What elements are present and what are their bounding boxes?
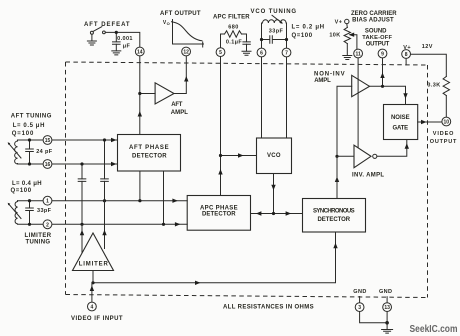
- wire: pin14 line down to AFT phase detector: [139, 56, 141, 135]
- pin 7: [282, 48, 291, 57]
- wire: AFT ampl output up to pin 12: [174, 56, 186, 94]
- pin 8: [402, 50, 411, 59]
- svg-text:11: 11: [355, 52, 361, 58]
- svg-text:AFT: AFT: [171, 102, 183, 108]
- wire: APC to VCO: [221, 155, 257, 157]
- svg-text:ZERO CARRIER: ZERO CARRIER: [351, 11, 397, 17]
- svg-text:3.3K: 3.3K: [427, 83, 440, 89]
- capacitor 0.1uF: [243, 42, 250, 44]
- svg-text:33pF: 33pF: [269, 29, 284, 35]
- svg-text:Q=100: Q=100: [11, 188, 32, 194]
- svg-text:16: 16: [45, 162, 51, 168]
- svg-text:13: 13: [384, 305, 390, 311]
- wire: inv input: [337, 155, 354, 157]
- pin 3: [355, 303, 364, 312]
- pin 5: [216, 48, 225, 57]
- svg-text:AMPL: AMPL: [171, 110, 189, 116]
- svg-text:OUTPUT: OUTPUT: [366, 42, 390, 48]
- wire: non-inv output node: [370, 86, 406, 104]
- wire: AFT det outputs down to buses: [139, 171, 141, 201]
- IC dashed boundary: [66, 62, 428, 298]
- junction: inv ampl input tap: [335, 155, 338, 158]
- capacitor 33pF (limiter tank): [26, 199, 34, 226]
- wire: tank top to pin 15: [18, 139, 44, 141]
- svg-text:7: 7: [285, 51, 288, 57]
- wire: pin 9 down to non-inv output node: [382, 58, 384, 87]
- svg-text:L= 0.5 μH: L= 0.5 μH: [13, 123, 45, 129]
- svg-text:9: 9: [381, 52, 384, 58]
- svg-text:TAKE-OFF: TAKE-OFF: [362, 35, 392, 41]
- svg-text:V+: V+: [335, 20, 343, 26]
- pin 13: [383, 303, 392, 312]
- svg-text:8: 8: [405, 52, 408, 58]
- svg-text:APC PHASE: APC PHASE: [200, 205, 238, 211]
- svg-text:AFT TUNING: AFT TUNING: [11, 113, 52, 119]
- AFT defeat switch: [90, 27, 105, 41]
- svg-text:1: 1: [46, 199, 49, 205]
- svg-text:3: 3: [358, 305, 361, 311]
- wire: pin15 bus to AFT phase detector: [52, 139, 118, 141]
- wire: pin1 bus to APC detector: [52, 200, 187, 202]
- capacitor C 0.001uF: [113, 32, 121, 50]
- svg-text:AFT OUTPUT: AFT OUTPUT: [160, 11, 201, 17]
- svg-text:10K: 10K: [329, 32, 340, 38]
- svg-text:0.1μF: 0.1μF: [226, 40, 243, 46]
- wire: pin 8 stub to boundary: [405, 58, 407, 64]
- svg-text:15: 15: [45, 138, 51, 144]
- svg-text:LIMITER: LIMITER: [79, 262, 109, 268]
- svg-text:INV. AMPL: INV. AMPL: [352, 172, 385, 178]
- wire: tank bottom to pin 2: [18, 223, 44, 225]
- APC filter: pin5 up: [221, 34, 225, 48]
- wire: noise gate output to pin 10: [418, 121, 442, 123]
- svg-text:Q=100: Q=100: [12, 131, 34, 137]
- wire: pin2 bus to APC detector: [52, 223, 187, 225]
- pin 9: [378, 49, 387, 58]
- pin 16: [43, 160, 52, 169]
- VCO tank: verticals pins 6,7: [261, 23, 263, 48]
- svg-text:GND: GND: [379, 289, 392, 295]
- wire: tank bottom to pin 16: [18, 163, 44, 165]
- inductor AFT tuning coil: [8, 140, 21, 164]
- coupling capacitor (line A x=104): [101, 138, 109, 202]
- svg-text:680: 680: [228, 25, 238, 31]
- svg-text:V+: V+: [403, 45, 411, 51]
- svg-text:SeekIC.com: SeekIC.com: [410, 323, 458, 335]
- svg-text:SOUND: SOUND: [365, 29, 387, 35]
- svg-text:5: 5: [219, 50, 222, 56]
- junction: AFT ampl input tap: [138, 92, 141, 95]
- op-amp INV AMPL: [354, 145, 371, 168]
- op-amp NON-INV AMPL: [352, 75, 370, 96]
- wire: GND pins 3 and 13: [359, 297, 361, 303]
- svg-text:GATE: GATE: [393, 126, 409, 132]
- pin 12: [182, 47, 191, 56]
- AFT output graph: [163, 20, 204, 48]
- pin 6: [257, 48, 266, 57]
- svg-text:VIDEO: VIDEO: [433, 131, 454, 137]
- svg-text:VCO TUNING: VCO TUNING: [251, 9, 297, 15]
- svg-text:14: 14: [137, 50, 143, 56]
- wire: pin6 down to VCO: [261, 57, 263, 138]
- wire: non-inv input from sync line: [337, 86, 352, 156]
- block VCO: [257, 138, 292, 174]
- svg-text:DETECTOR: DETECTOR: [132, 153, 167, 159]
- svg-text:0.001: 0.001: [117, 36, 133, 42]
- junction: VCO tank left: [260, 38, 263, 41]
- svg-text:μF: μF: [123, 43, 131, 49]
- ground (0.001uF cap): [112, 51, 121, 55]
- op-amp LIMITER triangle: [73, 233, 114, 271]
- svg-text:2: 2: [46, 222, 49, 228]
- wire: inv output to noise gate bottom: [377, 140, 407, 157]
- capacitor 33pF (VCO): [262, 39, 270, 41]
- junction: VCO output node: [272, 212, 275, 215]
- svg-text:DETECTOR: DETECTOR: [202, 212, 236, 218]
- svg-text:TUNING: TUNING: [26, 240, 51, 246]
- junction: VCO tank right: [285, 38, 288, 41]
- svg-text:BIAS ADJUST: BIAS ADJUST: [352, 18, 394, 24]
- svg-text:4: 4: [91, 305, 94, 311]
- pin 11: [354, 49, 363, 58]
- svg-text:DETECTOR: DETECTOR: [318, 217, 351, 223]
- svg-text:24 pF: 24 pF: [36, 149, 53, 155]
- pin 1: [43, 196, 52, 205]
- arrow through VCO coil: [272, 15, 281, 22]
- wire: limiter input lines into triangle: [80, 201, 107, 253]
- svg-text:LIMITER: LIMITER: [25, 233, 52, 239]
- svg-text:NOISE: NOISE: [391, 115, 410, 121]
- svg-text:ALL RESISTANCES IN OHMS: ALL RESISTANCES IN OHMS: [223, 305, 314, 311]
- junction: AFT det output on pin2 bus: [162, 223, 165, 226]
- svg-text:33pF: 33pF: [37, 208, 52, 214]
- coupling capacitor (line B x=81.5): [78, 162, 86, 226]
- node: AFT defeat junction: [115, 31, 118, 34]
- wire: VCO down to junction: [273, 174, 275, 214]
- inductor VCO tuning coil: [263, 20, 287, 23]
- pin 2: [43, 220, 52, 229]
- svg-text:VIDEO IF INPUT: VIDEO IF INPUT: [71, 316, 123, 322]
- svg-text:10: 10: [444, 120, 450, 126]
- pin 10: [442, 117, 451, 126]
- ground (0.1uF): [242, 51, 251, 55]
- junction: AFT det output on pin1 bus: [138, 199, 141, 202]
- junction: ground node: [385, 321, 389, 325]
- arrow up on pin14 line: [138, 111, 142, 117]
- wire: AFT defeat node to pin14: [106, 32, 140, 47]
- junction: video IF input node: [91, 281, 94, 284]
- block NOISE GATE: [384, 105, 418, 140]
- svg-text:OUTPUT: OUTPUT: [430, 139, 457, 145]
- svg-text:L= 0.4 μH: L= 0.4 μH: [12, 181, 42, 187]
- svg-text:Q=100: Q=100: [292, 33, 313, 39]
- wire: pin16 bus to AFT phase detector: [52, 163, 118, 165]
- block APC PHASE DETECTOR: [187, 196, 250, 231]
- svg-text:APC FILTER: APC FILTER: [213, 14, 250, 20]
- op-amp AFT AMPL: [155, 83, 188, 116]
- junction: non-inv output / pin 9: [381, 85, 384, 88]
- svg-text:AFT PHASE: AFT PHASE: [129, 145, 169, 151]
- inductor limiter tuning coil: [8, 201, 21, 224]
- svg-text:VCO: VCO: [267, 153, 281, 159]
- wire: sync output up-line arrow: [335, 177, 339, 183]
- capacitor 24pF: [26, 138, 34, 165]
- wire: AFT ampl input: [140, 93, 155, 95]
- wire: pin 4 video IF input stub: [91, 283, 93, 302]
- svg-text:AMPL: AMPL: [314, 78, 331, 84]
- potentiometer 10K zero-carrier: [344, 19, 357, 55]
- pin 15: [43, 136, 52, 145]
- svg-text:AFT DEFEAT: AFT DEFEAT: [84, 22, 130, 28]
- junction: APC output / VCO control: [219, 154, 222, 157]
- wire: junction to APC and SYNC: [251, 213, 303, 215]
- svg-text:VO: VO: [163, 20, 170, 26]
- ground (pins 3/13): [382, 330, 393, 334]
- svg-text:GND: GND: [353, 289, 366, 295]
- svg-text:NON-INV: NON-INV: [314, 72, 345, 78]
- svg-text:L= 0.2 μH: L= 0.2 μH: [292, 25, 325, 31]
- svg-text:6: 6: [260, 51, 263, 57]
- pin 14: [135, 47, 144, 56]
- wire: pin 5 down to APC phase detector: [220, 57, 222, 196]
- block SYNCHRONOUS DETECTOR: [303, 199, 366, 233]
- resistor 680: [225, 31, 242, 37]
- ground (10K pot): [343, 56, 352, 60]
- resistor 3.3K: [443, 77, 449, 96]
- wire: limiter output to sync detector: [93, 232, 336, 283]
- svg-text:12V: 12V: [422, 44, 433, 50]
- svg-text:SYNCHRONOUS: SYNCHRONOUS: [313, 209, 355, 215]
- block AFT PHASE DETECTOR: [118, 135, 181, 172]
- wire: tank top to pin 1: [18, 200, 44, 202]
- wire: pin 11 down to INV ampl: [357, 58, 359, 148]
- pin 4: [88, 302, 97, 311]
- wire: pin 8 to 12V rail and 3.3K: [411, 54, 447, 76]
- wire: pin7 down to VCO: [286, 57, 288, 138]
- svg-text:12: 12: [183, 50, 189, 56]
- ground (switch): [87, 41, 96, 45]
